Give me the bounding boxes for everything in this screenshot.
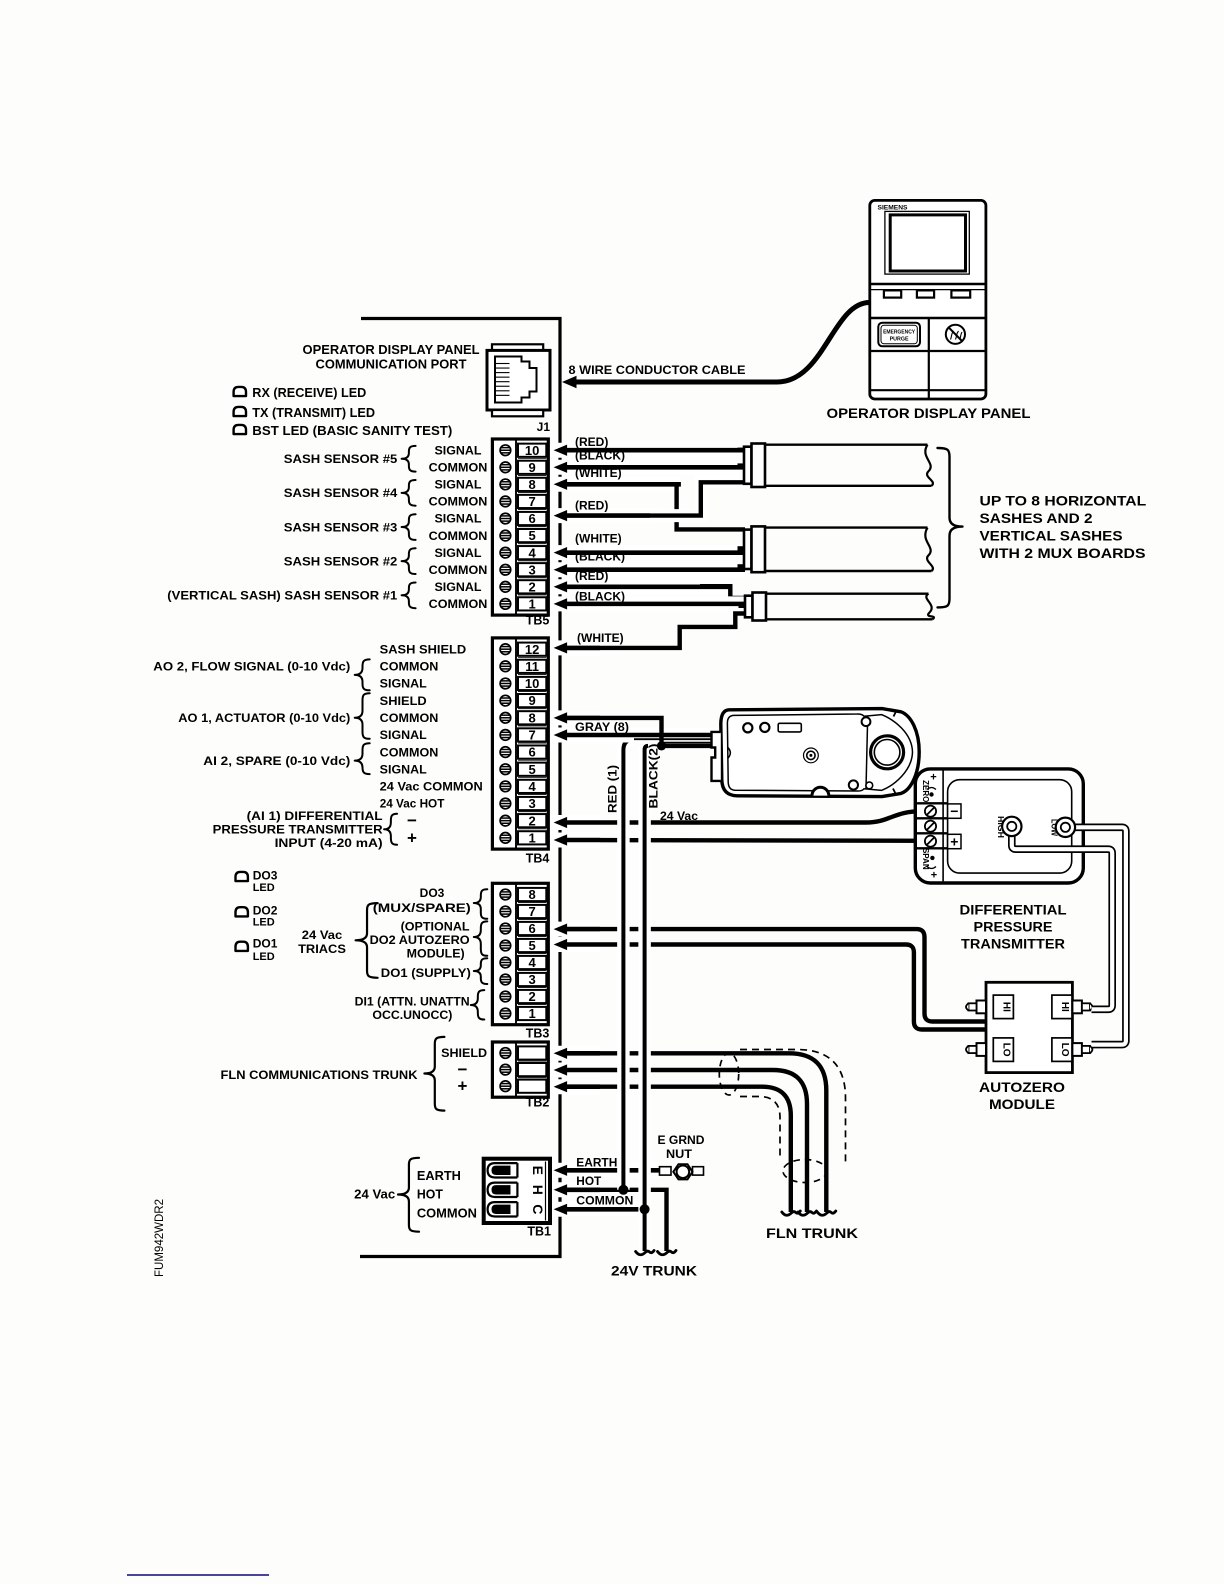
svg-text:COMMON: COMMON: [429, 461, 488, 475]
svg-text:TRANSMITTER: TRANSMITTER: [961, 937, 1065, 952]
DPT HIGH port circle: [1002, 817, 1021, 836]
terminal block TB1: [484, 1159, 551, 1239]
svg-text:SIGNAL: SIGNAL: [435, 478, 482, 492]
wire HOT with 24V trunk drop: [560, 1190, 667, 1251]
svg-text:AO 2, FLOW SIGNAL (0-10 Vdc): AO 2, FLOW SIGNAL (0-10 Vdc): [153, 660, 350, 674]
svg-text:SIGNAL: SIGNAL: [380, 677, 427, 691]
svg-text:4: 4: [528, 779, 536, 794]
svg-text:2: 2: [528, 813, 535, 828]
svg-text:(BLACK): (BLACK): [575, 449, 625, 463]
autozero port HI left: [977, 1001, 987, 1014]
LED DO2: [236, 907, 248, 916]
svg-text:LED: LED: [253, 951, 275, 963]
junction dot GRAY: [657, 741, 666, 750]
svg-text:2: 2: [528, 989, 535, 1004]
svg-text:TX (TRANSMIT) LED: TX (TRANSMIT) LED: [252, 406, 375, 420]
FLN trunk dashed cable envelope: [740, 1050, 846, 1164]
svg-text:UP TO 8 HORIZONTAL: UP TO 8 HORIZONTAL: [980, 493, 1147, 508]
junction dot HOT/RED: [618, 1185, 628, 1195]
svg-text:SIGNAL: SIGNAL: [435, 443, 482, 457]
sash sensor cylinder 2 (middle): [738, 526, 933, 572]
svg-text:COMMON: COMMON: [576, 1194, 633, 1208]
svg-text:RED (1): RED (1): [606, 765, 620, 813]
svg-text:WITH 2 MUX BOARDS: WITH 2 MUX BOARDS: [980, 546, 1146, 561]
controller board outline: [360, 319, 560, 1257]
svg-text:HOT: HOT: [417, 1188, 443, 1202]
svg-text:LO: LO: [1059, 1043, 1070, 1057]
svg-text:9: 9: [528, 693, 535, 708]
svg-text:TRIACS: TRIACS: [298, 944, 346, 956]
wire EARTH to E GRND NUT: [551, 1165, 661, 1176]
E GRND NUT symbol: [660, 1164, 704, 1179]
svg-text:(WHITE): (WHITE): [577, 631, 624, 645]
svg-text:+: +: [931, 869, 937, 881]
LED BST: [234, 425, 246, 434]
svg-text:COMMON: COMMON: [380, 745, 439, 759]
svg-text:7: 7: [528, 904, 535, 919]
svg-text:COMMON: COMMON: [429, 495, 488, 509]
svg-text:10: 10: [525, 676, 539, 691]
svg-text:PRESSURE: PRESSURE: [974, 920, 1053, 935]
DPT LOW port circle: [1056, 818, 1075, 837]
wire 24Vac to DPT plus (TB4-1): [560, 838, 927, 843]
svg-text:FUM942WDR2: FUM942WDR2: [154, 1199, 166, 1277]
svg-text:LO: LO: [1000, 1043, 1011, 1057]
svg-text:(BLACK): (BLACK): [575, 590, 625, 604]
svg-text:DO3: DO3: [253, 869, 278, 883]
svg-text:8: 8: [528, 477, 535, 492]
svg-text:HOT: HOT: [576, 1174, 602, 1188]
svg-text:AUTOZERO: AUTOZERO: [979, 1080, 1065, 1095]
svg-text:VERTICAL SASHES: VERTICAL SASHES: [980, 528, 1123, 543]
svg-text:COMMON: COMMON: [429, 563, 488, 577]
tube LOW port to autozero right LO: [1071, 827, 1126, 1044]
svg-text:(VERTICAL SASH) SASH SENSOR #1: (VERTICAL SASH) SASH SENSOR #1: [167, 589, 397, 603]
svg-text:MODULE): MODULE): [407, 947, 465, 961]
wire sash sensor #5 common (BLACK) to TB5-9: [551, 462, 745, 473]
cable 8-wire conductor: [777, 303, 870, 383]
svg-text:(MUX/SPARE): (MUX/SPARE): [373, 901, 471, 915]
LED DO3: [236, 872, 248, 881]
svg-text:SIEMENS: SIEMENS: [878, 205, 908, 212]
svg-text:EARTH: EARTH: [417, 1169, 461, 1183]
svg-text:+: +: [407, 828, 417, 847]
wire sash sensor #5 signal (RED) to TB5-10: [551, 445, 745, 456]
svg-text:6: 6: [528, 511, 535, 526]
sash sensor cylinder 3 (bottom, vertical sash): [739, 593, 934, 621]
svg-text:EARTH: EARTH: [576, 1155, 617, 1169]
svg-text:DIFFERENTIAL: DIFFERENTIAL: [960, 903, 1067, 918]
svg-text:8: 8: [528, 887, 535, 902]
svg-text:FLN TRUNK: FLN TRUNK: [766, 1226, 858, 1241]
svg-text:3: 3: [528, 796, 535, 811]
svg-text:12: 12: [525, 642, 539, 657]
svg-text:COMMON: COMMON: [429, 597, 488, 611]
wire DO2 to autozero (TB3-6): [560, 929, 987, 1021]
svg-text:DO2: DO2: [253, 903, 278, 917]
svg-text:24 Vac COMMON: 24 Vac COMMON: [380, 780, 483, 794]
LED TX: [234, 407, 246, 416]
wire sash sensor #2 signal (WHITE) to TB5-4: [551, 547, 745, 558]
svg-text:DO1 (SUPPLY): DO1 (SUPPLY): [381, 966, 471, 980]
svg-text:SIGNAL: SIGNAL: [435, 580, 482, 594]
svg-text:TB2: TB2: [526, 1096, 550, 1110]
svg-text:9: 9: [528, 460, 535, 475]
svg-text:COMMON: COMMON: [380, 711, 439, 725]
svg-text:PRESSURE TRANSMITTER: PRESSURE TRANSMITTER: [213, 823, 383, 837]
svg-text:(BLACK): (BLACK): [575, 550, 625, 564]
terminal block TB2: [492, 1042, 549, 1110]
svg-text:NUT: NUT: [666, 1147, 693, 1161]
svg-text:SASH SENSOR #3: SASH SENSOR #3: [284, 520, 398, 534]
svg-text:24 Vac HOT: 24 Vac HOT: [380, 797, 445, 811]
svg-text:TB4: TB4: [526, 852, 550, 866]
LED RX: [234, 387, 246, 396]
svg-text:OPERATOR DISPLAY PANEL: OPERATOR DISPLAY PANEL: [303, 343, 480, 357]
svg-text:8: 8: [528, 710, 535, 725]
svg-text:DO3: DO3: [420, 886, 445, 900]
terminal block TB3: [492, 883, 549, 1040]
svg-text:ZERO: ZERO: [921, 780, 930, 802]
svg-text:6: 6: [528, 921, 535, 936]
svg-text:(RED): (RED): [575, 569, 608, 583]
svg-text:SASH SENSOR #4: SASH SENSOR #4: [284, 486, 398, 500]
actuator body: [712, 709, 920, 797]
svg-text:5: 5: [528, 938, 535, 953]
svg-text:4: 4: [528, 545, 536, 560]
svg-text:8 WIRE CONDUCTOR CABLE: 8 WIRE CONDUCTOR CABLE: [569, 363, 746, 377]
svg-text:DO2 AUTOZERO: DO2 AUTOZERO: [370, 933, 470, 947]
svg-text:1: 1: [528, 830, 535, 845]
connector J1 (RJ-45 jack): [487, 344, 550, 434]
wire actuator cable thick (TB4-7): [551, 729, 712, 740]
svg-text:C: C: [530, 1204, 546, 1214]
wire sash sensor #1 signal (RED) to TB5-2: [551, 581, 731, 592]
wire 24Vac to DPT minus (TB4-2): [560, 811, 927, 822]
svg-text:RX (RECEIVE) LED: RX (RECEIVE) LED: [252, 386, 366, 400]
svg-text:1: 1: [528, 1006, 535, 1021]
svg-text:HI: HI: [1000, 1002, 1011, 1012]
autozero port HI right: [1072, 1001, 1082, 1014]
svg-text:2: 2: [528, 579, 535, 594]
svg-text:(OPTIONAL: (OPTIONAL: [401, 920, 470, 934]
svg-text:−: −: [407, 811, 417, 830]
wire FLN plus (TB2-3): [560, 1087, 791, 1212]
terminal block TB4: [492, 638, 549, 866]
svg-text:MODULE: MODULE: [989, 1097, 1055, 1112]
svg-text:FLN COMMUNICATIONS TRUNK: FLN COMMUNICATIONS TRUNK: [221, 1068, 418, 1082]
svg-text:TB5: TB5: [526, 614, 550, 628]
svg-text:(WHITE): (WHITE): [575, 532, 622, 546]
autozero port LO left: [977, 1043, 987, 1056]
svg-text:10: 10: [525, 443, 539, 458]
svg-text:DO1: DO1: [253, 936, 278, 950]
svg-text:E: E: [530, 1166, 546, 1175]
svg-text:DI1 (ATTN. UNATTN: DI1 (ATTN. UNATTN: [355, 994, 470, 1008]
wire actuator cable thin pair: [634, 738, 712, 740]
brace sash sensors group: [938, 448, 963, 607]
bottom rule (blue): [127, 1574, 269, 1576]
wire sash sensor #3 signal (RED) staircase to TB5-6: [551, 510, 660, 521]
wire sash sensor #2 common (BLACK) to TB5-3: [551, 564, 745, 575]
svg-text:HI: HI: [1059, 1002, 1070, 1012]
svg-text:OCC.UNOCC): OCC.UNOCC): [372, 1008, 452, 1022]
svg-text:+: +: [950, 833, 958, 849]
svg-text:BLACK(2): BLACK(2): [647, 744, 661, 809]
svg-text:SHIELD: SHIELD: [380, 694, 427, 708]
svg-text:SIGNAL: SIGNAL: [380, 762, 427, 776]
svg-text:J1: J1: [537, 420, 551, 434]
svg-text:SHIELD: SHIELD: [441, 1046, 487, 1060]
tube HIGH port to autozero right HI: [1012, 832, 1112, 1009]
svg-text:INPUT (4-20 mA): INPUT (4-20 mA): [275, 836, 383, 850]
svg-text:4: 4: [528, 955, 536, 970]
svg-text:SASHES AND 2: SASHES AND 2: [980, 511, 1093, 526]
terminal block TB5: [492, 439, 549, 628]
wire FLN shield (TB2-1): [560, 1053, 826, 1212]
svg-text:TB1: TB1: [527, 1225, 551, 1239]
svg-text:COMMON: COMMON: [417, 1207, 477, 1221]
svg-text:COMMUNICATION PORT: COMMUNICATION PORT: [316, 358, 467, 372]
junction dot COMMON/BLACK: [640, 1204, 650, 1214]
svg-text:COMMON: COMMON: [429, 529, 488, 543]
svg-text:SIGNAL: SIGNAL: [380, 728, 427, 742]
svg-text:(AI 1) DIFFERENTIAL: (AI 1) DIFFERENTIAL: [247, 809, 383, 823]
svg-text:24V TRUNK: 24V TRUNK: [611, 1263, 697, 1279]
wire RED (1) vertical: [623, 739, 634, 1190]
svg-text:E GRND: E GRND: [658, 1133, 705, 1147]
svg-text:GRAY (8): GRAY (8): [575, 720, 629, 734]
svg-text:5: 5: [528, 762, 535, 777]
svg-text:5: 5: [528, 528, 535, 543]
svg-text:+: +: [458, 1077, 468, 1096]
svg-text:LED: LED: [253, 882, 275, 894]
svg-text:SIGNAL: SIGNAL: [435, 546, 482, 560]
svg-text:7: 7: [528, 728, 535, 743]
svg-text:(RED): (RED): [575, 499, 608, 513]
svg-text:PURGE: PURGE: [890, 337, 909, 343]
wire GRAY (8) to TB4-8: [560, 718, 712, 746]
svg-text:3: 3: [528, 562, 535, 577]
svg-text:11: 11: [525, 659, 539, 674]
svg-text:SASH SHIELD: SASH SHIELD: [380, 642, 467, 656]
svg-text:TB3: TB3: [526, 1027, 550, 1041]
svg-text:SASH SENSOR #2: SASH SENSOR #2: [284, 554, 398, 568]
svg-text:EMERGENCY: EMERGENCY: [883, 330, 915, 336]
svg-text:LED: LED: [253, 917, 275, 929]
svg-text:BST LED (BASIC SANITY TEST): BST LED (BASIC SANITY TEST): [252, 424, 452, 438]
svg-text:6: 6: [528, 745, 535, 760]
svg-text:+: +: [930, 771, 936, 783]
wire sash sensor #4 signal (WHITE) staircase to TB5-8: [551, 479, 681, 490]
svg-text:SPAN: SPAN: [921, 848, 930, 870]
svg-text:AI 2, SPARE (0-10 Vdc): AI 2, SPARE (0-10 Vdc): [203, 754, 350, 768]
svg-text:7: 7: [528, 494, 535, 509]
wire sash shield (WHITE) staircase to TB4-12: [556, 614, 745, 648]
svg-text:24 Vac: 24 Vac: [302, 930, 343, 942]
wire FLN minus (TB2-2): [560, 1070, 807, 1212]
differential pressure transmitter: [915, 769, 1083, 883]
svg-text:24 Vac: 24 Vac: [660, 809, 698, 823]
sash sensor cylinder 1 (top): [738, 444, 933, 488]
wire DO2 to autozero (TB3-5): [560, 945, 987, 1030]
svg-text:1: 1: [528, 596, 535, 611]
wire BLACK (2) vertical with 24V trunk curl: [645, 746, 648, 1251]
svg-text:(RED): (RED): [575, 435, 608, 449]
svg-text:−: −: [950, 803, 958, 819]
autozero module: [966, 982, 1092, 1072]
svg-text:SASH SENSOR #5: SASH SENSOR #5: [284, 452, 398, 466]
operator display panel: [870, 200, 986, 399]
wire sash sensor #1 common (BLACK) to TB5-1: [551, 598, 745, 609]
autozero port LO right: [1072, 1043, 1082, 1056]
svg-text:24 Vac: 24 Vac: [354, 1187, 395, 1201]
svg-text:SIGNAL: SIGNAL: [435, 512, 482, 526]
svg-text:OPERATOR DISPLAY PANEL: OPERATOR DISPLAY PANEL: [827, 406, 1031, 421]
svg-text:(WHITE): (WHITE): [575, 466, 622, 480]
LED DO1: [236, 942, 248, 951]
svg-text:AO 1, ACTUATOR (0-10 Vdc): AO 1, ACTUATOR (0-10 Vdc): [178, 711, 350, 725]
wire COMMON to black vertical: [551, 1204, 646, 1215]
svg-text:COMMON: COMMON: [380, 660, 439, 674]
svg-text:H: H: [530, 1185, 546, 1195]
svg-text:3: 3: [528, 972, 535, 987]
